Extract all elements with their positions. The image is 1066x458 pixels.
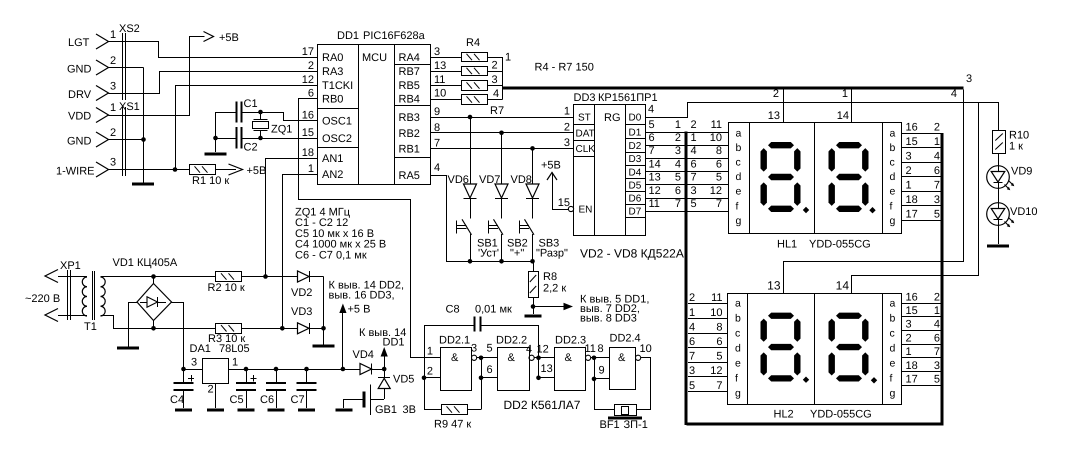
svg-text:VD9: VD9 xyxy=(1011,166,1032,178)
node DRV label xyxy=(68,89,92,101)
pin numbers DD2.1 xyxy=(427,343,493,378)
svg-text:b: b xyxy=(890,312,896,324)
svg-text:3: 3 xyxy=(906,150,912,162)
svg-text:5: 5 xyxy=(689,380,695,392)
gate DD2.3 xyxy=(555,335,587,391)
wire HL1 right row f xyxy=(901,205,941,207)
svg-text:9: 9 xyxy=(434,106,440,118)
ground (bridge) xyxy=(117,347,139,350)
svg-text:11: 11 xyxy=(585,343,596,355)
svg-text:3: 3 xyxy=(492,74,498,86)
wire DD2.1 pin2 xyxy=(424,377,441,379)
svg-text:3: 3 xyxy=(675,145,681,157)
junction 1-WIRE/T1CKI/R1 xyxy=(173,167,178,172)
pin labels HL2 right row b xyxy=(906,305,941,317)
svg-text:4: 4 xyxy=(493,88,499,100)
pin numbers DD2.2/2.3 xyxy=(526,344,553,376)
svg-text:a: a xyxy=(890,127,896,139)
capacitor C6 xyxy=(260,369,286,408)
wire RA4 to R4 xyxy=(431,57,462,59)
ground (oscillator) xyxy=(205,153,227,156)
svg-text:DD1: DD1 xyxy=(383,337,405,349)
svg-text:a: a xyxy=(735,297,741,309)
svg-text:RA5: RA5 xyxy=(399,170,420,182)
gate DD2.2 xyxy=(496,335,530,391)
power +5V arrow (top) xyxy=(204,32,239,45)
resistor R2 xyxy=(208,272,245,295)
junction R3/AN2 xyxy=(280,326,285,331)
wire RB2 to DD3 DAT xyxy=(431,132,574,134)
wire bus to HL2 segment f xyxy=(688,376,728,378)
svg-text:VD2: VD2 xyxy=(291,287,312,299)
svg-text:AN2: AN2 xyxy=(322,169,343,181)
junction bridge AC bottom xyxy=(151,326,156,331)
svg-text:RA3: RA3 xyxy=(322,66,343,78)
svg-text:4: 4 xyxy=(934,150,940,162)
node VDD label xyxy=(68,111,91,123)
svg-text:d: d xyxy=(736,171,742,183)
svg-text:1: 1 xyxy=(689,307,695,319)
svg-text:7: 7 xyxy=(934,179,940,191)
value label R10 1 к xyxy=(1009,130,1029,153)
svg-text:DRV: DRV xyxy=(68,89,92,101)
svg-text:7: 7 xyxy=(716,198,722,210)
wire 3 (bus to HL2 pin13) xyxy=(784,90,964,294)
pin labels HL1 right row f xyxy=(906,194,941,206)
svg-text:6: 6 xyxy=(934,332,940,344)
wire resistor outputs to bus xyxy=(487,57,503,100)
svg-text:15: 15 xyxy=(558,197,570,209)
svg-text:+5В: +5В xyxy=(219,32,239,44)
svg-text:18: 18 xyxy=(906,194,918,206)
wire DD2.4 out to BF1 xyxy=(637,358,651,410)
resistor R8 xyxy=(529,261,567,306)
svg-text:выв. 8 DD3: выв. 8 DD3 xyxy=(580,313,637,325)
svg-text:g: g xyxy=(890,387,896,399)
labels 2 / 13 (HL1 left common) xyxy=(768,88,780,122)
svg-text:4: 4 xyxy=(675,158,681,170)
capacitor C2 xyxy=(216,127,261,154)
wire HL2 right row e xyxy=(901,357,941,359)
svg-text:ST: ST xyxy=(578,113,591,124)
pin labels HL1 right row d xyxy=(906,165,941,177)
inversion bubble DD3 EN xyxy=(568,206,573,211)
wire C1/C2 left to ground xyxy=(215,112,217,152)
svg-text:18: 18 xyxy=(906,360,918,372)
svg-text:15: 15 xyxy=(906,305,918,317)
inversion bubble DD2.2 out xyxy=(529,355,534,360)
decimal point HL1 left xyxy=(803,207,809,213)
connector XS2 xyxy=(96,23,140,101)
labels 13 / 14 (HL2 commons) xyxy=(767,279,849,293)
display HL2 YDD-055CG xyxy=(728,293,902,421)
svg-text:OSC1: OSC1 xyxy=(322,116,352,128)
svg-text:DD2.4: DD2.4 xyxy=(610,333,641,345)
svg-text:RB2: RB2 xyxy=(399,128,420,140)
wire OSC1 to crystal xyxy=(261,113,318,121)
arrow to DD pins (R8 node) xyxy=(533,303,573,310)
svg-text:3: 3 xyxy=(110,81,116,93)
wire bus to HL2 segment g xyxy=(688,391,728,393)
node GND label (XS1 pin2) xyxy=(67,136,92,148)
svg-text:3: 3 xyxy=(966,73,972,85)
svg-text:7: 7 xyxy=(675,198,681,210)
svg-text:11: 11 xyxy=(711,292,722,304)
decimal point HL1 right xyxy=(869,207,875,213)
svg-text:RB3: RB3 xyxy=(399,112,420,124)
wire T1 secondary bottom xyxy=(101,316,216,329)
wire HL1 right row e xyxy=(901,191,941,193)
svg-text:4: 4 xyxy=(526,344,532,356)
svg-text:8: 8 xyxy=(716,145,722,157)
svg-text:7: 7 xyxy=(689,351,695,363)
svg-text:3: 3 xyxy=(110,157,116,169)
svg-text:c: c xyxy=(890,327,895,339)
resistor R6 xyxy=(462,81,488,91)
svg-text:f: f xyxy=(735,372,738,384)
pin labels HL2 left row c xyxy=(689,321,723,333)
svg-text:CLK: CLK xyxy=(576,144,596,155)
pin number D0 4 xyxy=(648,104,654,116)
svg-text:16: 16 xyxy=(302,110,314,122)
svg-text:4: 4 xyxy=(951,88,957,100)
capacitor C1 xyxy=(216,98,261,123)
junction DD2.2 pin6 xyxy=(479,376,484,381)
wire bridge plus to DA1 xyxy=(172,303,203,370)
svg-text:2: 2 xyxy=(934,291,940,303)
svg-text:D1: D1 xyxy=(629,128,642,139)
ground (C5) xyxy=(238,409,255,412)
svg-text:КР1561ПР1: КР1561ПР1 xyxy=(598,92,658,104)
capacitor C7 xyxy=(291,369,317,408)
note К выв. 14 DD2 / выв. 16 DD3 xyxy=(329,280,405,302)
pin number DD2.2 pin6 xyxy=(487,364,493,376)
junction C7 xyxy=(304,367,309,372)
svg-text:c: c xyxy=(735,327,740,339)
svg-text:7: 7 xyxy=(691,172,697,184)
svg-text:C1: C1 xyxy=(244,98,258,110)
svg-text:17: 17 xyxy=(906,208,918,220)
svg-text:15: 15 xyxy=(906,136,918,148)
svg-text:7: 7 xyxy=(649,145,655,157)
svg-text:10: 10 xyxy=(640,343,652,355)
junction DD2.4 pin9 xyxy=(592,377,597,382)
svg-text:a: a xyxy=(736,127,742,139)
svg-text:5: 5 xyxy=(934,208,940,220)
pin labels row b HL1 left xyxy=(649,132,723,144)
pin labels HL2 right row c xyxy=(906,319,941,331)
wire pin9 node to BF1 xyxy=(595,379,615,410)
svg-text:R9 47 к: R9 47 к xyxy=(434,419,471,431)
svg-text:4: 4 xyxy=(434,162,440,174)
svg-text:&: & xyxy=(565,352,573,364)
svg-text:R7: R7 xyxy=(490,105,504,117)
pushbutton SB2 xyxy=(488,219,528,261)
svg-text:11: 11 xyxy=(649,198,660,210)
junction GND XS1/XS2 xyxy=(141,137,146,142)
svg-text:RB4: RB4 xyxy=(399,94,420,106)
pin labels row a HL1 left xyxy=(649,119,723,131)
pin labels row f HL1 left xyxy=(649,185,723,197)
svg-text:YDD-055CG: YDD-055CG xyxy=(809,239,871,251)
pin labels HL2 right row d xyxy=(906,332,941,344)
wire number labels 1-4 xyxy=(492,52,512,101)
svg-text:e: e xyxy=(736,186,742,198)
svg-text:D2: D2 xyxy=(629,141,642,152)
node LGT label xyxy=(68,37,90,49)
wire OSC2 to crystal xyxy=(261,138,318,140)
wire DD2.3 pin13 tie xyxy=(539,358,555,378)
svg-text:12: 12 xyxy=(537,344,549,356)
svg-text:2: 2 xyxy=(110,55,116,67)
wire R2 to VD2 xyxy=(242,276,298,278)
wire HL2 right row b xyxy=(901,316,941,318)
svg-text:3: 3 xyxy=(691,185,697,197)
wire T1 secondary top to bridge xyxy=(101,276,216,278)
bus thick wire right vertical xyxy=(941,133,944,424)
svg-text:12: 12 xyxy=(302,74,314,86)
svg-text:2: 2 xyxy=(906,332,912,344)
pin labels HL1 right row c xyxy=(906,150,941,162)
svg-text:PIC16F628a: PIC16F628a xyxy=(363,30,426,42)
label DD2 К561ЛА7 xyxy=(504,398,581,412)
svg-text:9: 9 xyxy=(599,365,605,377)
svg-text:a: a xyxy=(890,297,896,309)
svg-text:2: 2 xyxy=(427,366,433,378)
svg-text:D3: D3 xyxy=(629,154,642,165)
svg-text:1: 1 xyxy=(675,119,681,131)
svg-text:R8: R8 xyxy=(543,271,557,283)
diode VD7 xyxy=(479,133,508,219)
ground (R8) xyxy=(525,315,542,318)
svg-text:VD5: VD5 xyxy=(393,374,414,386)
digit 8 HL1 right xyxy=(829,142,869,212)
svg-text:10: 10 xyxy=(434,88,446,100)
svg-text:&: & xyxy=(618,352,626,364)
pin labels HL2 left row g xyxy=(689,380,723,392)
svg-text:6: 6 xyxy=(691,158,697,170)
battery GB1 xyxy=(344,385,416,417)
pin labels HL2 left row e xyxy=(689,351,723,363)
svg-text:ЗП-1: ЗП-1 xyxy=(624,419,648,431)
svg-text:5: 5 xyxy=(691,198,697,210)
svg-text:HL1: HL1 xyxy=(777,239,797,251)
pin numbers DA1 xyxy=(191,357,238,396)
wire RA5 to buttons xyxy=(431,176,534,262)
svg-text:5: 5 xyxy=(675,172,681,184)
junction C5 xyxy=(244,367,249,372)
note VD2 - VD8 КД522А xyxy=(580,247,684,261)
capacitor C5 xyxy=(230,369,257,408)
pin labels row e HL1 left xyxy=(649,172,723,184)
svg-text:VD6: VD6 xyxy=(448,174,469,186)
pin numbers DD1 right xyxy=(434,46,446,174)
wire R3 to VD3 xyxy=(242,328,298,330)
svg-text:7: 7 xyxy=(434,137,440,149)
LED VD10 xyxy=(987,203,1038,228)
svg-text:13: 13 xyxy=(768,110,780,122)
wire R1 to +5V xyxy=(215,169,236,171)
digit 8 HL2 left xyxy=(761,313,801,382)
svg-text:f: f xyxy=(890,200,893,212)
svg-text:VD4: VD4 xyxy=(353,349,374,361)
label 3 xyxy=(966,73,972,85)
wire VD9 to VD10 xyxy=(998,189,1000,203)
ground (GB1) xyxy=(336,409,353,412)
junction C2 left xyxy=(213,136,218,141)
svg-text:5: 5 xyxy=(716,351,722,363)
svg-text:2: 2 xyxy=(934,121,940,133)
svg-text:10: 10 xyxy=(710,307,722,319)
svg-text:1: 1 xyxy=(232,357,238,369)
svg-text:2,2 к: 2,2 к xyxy=(543,283,566,295)
value label R1 10 к xyxy=(192,175,229,187)
svg-text:4: 4 xyxy=(691,145,697,157)
resistor R10 xyxy=(993,131,1006,166)
svg-text:6: 6 xyxy=(308,88,314,100)
wire HL1 right row a xyxy=(901,133,941,135)
wire DD3 D7 to HL1 segment g xyxy=(645,211,729,213)
svg-text:6: 6 xyxy=(716,336,722,348)
wire DA1 pin2 to ground xyxy=(215,384,217,409)
svg-text:OSC2: OSC2 xyxy=(322,133,352,145)
wire RB4 to R7 xyxy=(431,99,462,101)
junction RB2/VD7 xyxy=(499,131,504,136)
bus thick wire top xyxy=(503,87,964,90)
svg-text:b: b xyxy=(736,142,742,154)
capacitor C4 xyxy=(170,369,194,408)
labels 1 / 14 (HL1 right common) xyxy=(837,88,849,122)
svg-text:DAT: DAT xyxy=(576,128,595,139)
junction DD2.1 out xyxy=(479,356,484,361)
svg-text:~220 В: ~220 В xyxy=(25,293,60,305)
svg-text:C2: C2 xyxy=(244,142,258,154)
resistor R1 xyxy=(190,165,216,175)
diode VD8 xyxy=(511,148,540,218)
arrow К выв. 14 DD1 xyxy=(359,327,406,369)
svg-text:RA0: RA0 xyxy=(322,52,343,64)
capacitor C8 xyxy=(424,304,539,358)
svg-text:1: 1 xyxy=(691,132,697,144)
svg-text:RG: RG xyxy=(604,112,621,124)
wire D0 to commons/R10 xyxy=(646,103,999,131)
wire bus to HL2 segment a xyxy=(688,303,728,305)
svg-text:VD3: VD3 xyxy=(291,306,312,318)
svg-text:16: 16 xyxy=(906,291,918,303)
power +5V arrow (R1) xyxy=(229,164,267,177)
svg-text:C7: C7 xyxy=(291,394,305,406)
wire HL1 right row g xyxy=(901,220,941,222)
svg-text:1 к: 1 к xyxy=(1009,141,1023,153)
svg-text:GND: GND xyxy=(67,136,92,148)
svg-text:3: 3 xyxy=(689,365,695,377)
svg-text:'Уст': 'Уст' xyxy=(478,248,499,260)
node GND label (XS2 pin2) xyxy=(67,64,92,76)
svg-text:3В: 3В xyxy=(403,404,416,416)
wire GND XS1 to junction xyxy=(109,139,144,141)
resistor R5 xyxy=(462,67,488,76)
note ZQ1 values xyxy=(295,207,386,262)
pin labels HL1 right row a xyxy=(906,121,941,133)
wire RB3 to DD3 ST xyxy=(431,117,574,119)
svg-text:&: & xyxy=(451,352,459,364)
svg-text:1: 1 xyxy=(934,136,940,148)
decimal point HL2 right xyxy=(871,377,877,383)
svg-text:XP1: XP1 xyxy=(60,260,81,272)
ground (connector GND) xyxy=(132,183,154,186)
svg-text:17: 17 xyxy=(302,46,314,58)
svg-text:RB1: RB1 xyxy=(399,143,420,155)
svg-text:XS1: XS1 xyxy=(119,101,140,113)
LED VD9 xyxy=(987,166,1033,191)
svg-text:d: d xyxy=(890,171,896,183)
ground (VD2/VD3) xyxy=(313,345,335,348)
label 4 xyxy=(951,88,957,100)
svg-text:R4 - R7 150: R4 - R7 150 xyxy=(535,62,594,74)
svg-text:D7: D7 xyxy=(629,207,642,218)
svg-text:1: 1 xyxy=(110,29,116,41)
svg-text:MCU: MCU xyxy=(362,52,387,64)
junction SB1 bottom xyxy=(468,259,473,264)
wire VD10 to ground xyxy=(998,226,1000,245)
svg-text:R2 10 к: R2 10 к xyxy=(208,282,245,294)
svg-text:4: 4 xyxy=(689,321,695,333)
svg-text:16: 16 xyxy=(906,121,918,133)
svg-text:R4: R4 xyxy=(466,37,480,49)
wire RB0 to DD2.1 input xyxy=(299,99,441,358)
svg-text:R1 10 к: R1 10 к xyxy=(192,175,229,187)
gate DD2.4 xyxy=(610,333,641,390)
resistor R4 xyxy=(462,37,488,62)
svg-text:3: 3 xyxy=(934,360,940,372)
svg-text:78L05: 78L05 xyxy=(219,343,250,355)
note К выв. 5 DD1 xyxy=(580,294,649,325)
label VD1 КЦ405А xyxy=(113,257,178,269)
wire common 1 to HL1 pin14 xyxy=(851,89,853,123)
svg-text:2: 2 xyxy=(564,121,570,133)
pin labels HL1 right row e xyxy=(906,179,941,191)
svg-text:VD8: VD8 xyxy=(511,174,532,186)
wire DD3 D5 to HL1 segment e xyxy=(645,184,729,186)
svg-text:1: 1 xyxy=(427,346,433,358)
svg-text:3: 3 xyxy=(934,194,940,206)
pin labels HL1 right row b xyxy=(906,136,941,148)
svg-text:D4: D4 xyxy=(629,168,642,179)
svg-text:T1CKI: T1CKI xyxy=(322,80,353,92)
svg-text:RB7: RB7 xyxy=(399,66,420,78)
svg-text:15: 15 xyxy=(302,127,314,139)
svg-text:DD2.1: DD2.1 xyxy=(439,335,470,347)
wire AN1 to R2 node xyxy=(266,159,318,277)
svg-text:6: 6 xyxy=(675,185,681,197)
svg-text:4: 4 xyxy=(648,104,654,116)
svg-text:&: & xyxy=(508,352,516,364)
display HL1 YDD-055CG xyxy=(729,123,902,251)
pin numbers DD2.3 out / DD2.4 xyxy=(585,343,652,377)
svg-text:6: 6 xyxy=(934,165,940,177)
IC DD3 КР1561ПР1 (RG) xyxy=(574,92,658,236)
junction RB3/VD6 xyxy=(468,115,473,120)
svg-text:D5: D5 xyxy=(629,180,642,191)
diode VD3 xyxy=(291,306,324,334)
wire R8 to ground xyxy=(533,307,535,315)
buzzer BF1 ЗП-1 xyxy=(600,405,648,432)
svg-text:3: 3 xyxy=(906,319,912,331)
svg-text:HL2: HL2 xyxy=(774,409,794,421)
svg-text:RA4: RA4 xyxy=(399,52,420,64)
wire DA1 output rail xyxy=(229,369,361,371)
svg-text:5: 5 xyxy=(716,172,722,184)
